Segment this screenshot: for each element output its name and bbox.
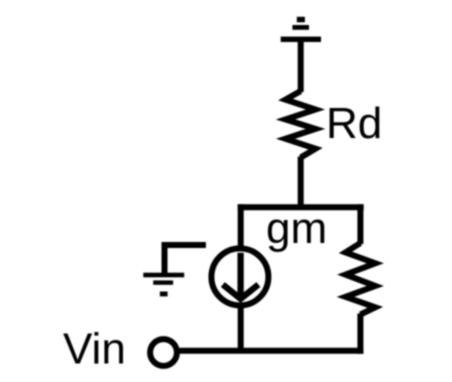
ground wire horizontal [165, 242, 206, 248]
resistor ro [346, 243, 376, 315]
terminal Vin circle [150, 339, 177, 366]
svg-text:Rd: Rd [326, 99, 382, 148]
wire left vertical [238, 204, 244, 247]
wire bottom horizontal [180, 348, 364, 354]
current source gm arrow [237, 253, 243, 297]
resistor Rd [286, 91, 316, 158]
wire Rd to top node [298, 157, 304, 208]
supply rail symbol (top) [281, 17, 321, 42]
wire top horizontal [238, 204, 364, 210]
wire below current source [238, 307, 244, 351]
current source gm (circle) [211, 248, 268, 305]
svg-text:Vin: Vin [63, 325, 126, 374]
wire right vertical top [357, 204, 363, 244]
ground stub vertical [162, 242, 168, 277]
wire right vertical bottom [357, 314, 363, 354]
wire supply to Rd [298, 42, 304, 92]
ground symbol bars [143, 273, 184, 297]
svg-text:gm: gm [266, 204, 327, 253]
